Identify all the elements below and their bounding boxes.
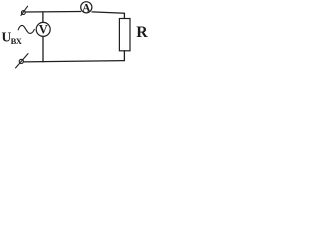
- svg-text:V: V: [39, 23, 48, 37]
- svg-text:A: A: [82, 3, 91, 15]
- AC source symbol ~: [18, 25, 34, 33]
- svg-text:ВХ: ВХ: [11, 36, 23, 46]
- voltmeter V: [36, 22, 50, 36]
- wire voltmeter top stub: [42, 12, 44, 22]
- wire top-right segment: [92, 12, 124, 19]
- terminal X1 (top input): [21, 6, 28, 15]
- wire voltmeter bottom stub: [42, 36, 44, 61]
- svg-text:R: R: [136, 24, 148, 41]
- wire bottom segment: [24, 61, 125, 62]
- terminal X2 (bottom input): [16, 54, 28, 68]
- label U_BX input voltage: [2, 30, 23, 46]
- resistor R: [119, 19, 130, 51]
- wire top-left segment: [25, 11, 80, 14]
- wire resistor bottom stub: [123, 51, 125, 61]
- ammeter A: [81, 2, 92, 15]
